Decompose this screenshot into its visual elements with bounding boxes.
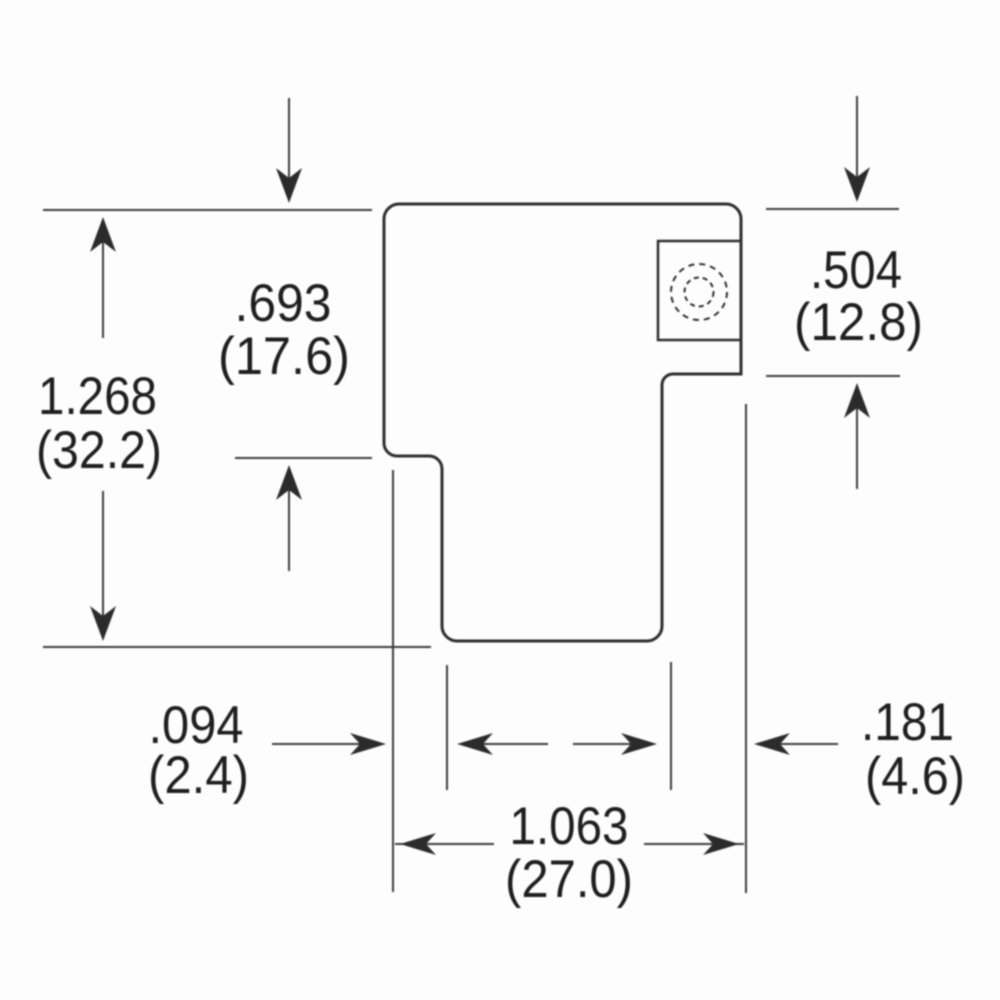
svg-text:(4.6): (4.6) <box>865 747 965 806</box>
svg-text:.181: .181 <box>861 693 954 752</box>
svg-text:(12.8): (12.8) <box>794 293 923 352</box>
svg-text:.504: .504 <box>810 241 902 300</box>
svg-text:(17.6): (17.6) <box>218 327 350 386</box>
svg-text:.693: .693 <box>235 274 332 333</box>
svg-text:(27.0): (27.0) <box>505 850 633 909</box>
svg-text:1.268: 1.268 <box>38 367 157 426</box>
svg-text:1.063: 1.063 <box>510 797 629 856</box>
svg-text:(32.2): (32.2) <box>36 421 162 480</box>
svg-text:(2.4): (2.4) <box>148 746 249 805</box>
